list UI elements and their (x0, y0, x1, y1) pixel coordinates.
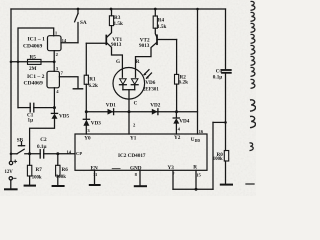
svg-text:R6: R6 (62, 167, 69, 173)
svg-text:14: 14 (62, 38, 67, 43)
svg-text:G: G (116, 59, 120, 65)
svg-text:CD4069: CD4069 (23, 43, 42, 49)
svg-text:R7: R7 (36, 167, 43, 173)
svg-text:6.2k: 6.2k (179, 79, 188, 85)
svg-text:Y0: Y0 (84, 135, 91, 141)
svg-text:11: 11 (93, 172, 98, 177)
svg-text:C: C (134, 100, 138, 106)
svg-text:SA: SA (80, 20, 87, 26)
svg-text:Y3: Y3 (168, 165, 175, 171)
svg-text:300k: 300k (56, 175, 66, 180)
svg-text:C0: C0 (216, 68, 223, 74)
svg-text:1µ: 1µ (28, 118, 34, 124)
svg-text:16: 16 (199, 129, 204, 134)
svg-text:EN: EN (91, 166, 98, 172)
svg-text:VD6: VD6 (145, 80, 155, 86)
svg-text:VD4: VD4 (179, 118, 189, 124)
svg-text:R: R (136, 59, 140, 65)
svg-text:VD3: VD3 (91, 120, 101, 126)
svg-text:1.5k: 1.5k (157, 24, 166, 30)
svg-text:VD5: VD5 (59, 114, 69, 120)
svg-text:1.5k: 1.5k (114, 21, 123, 27)
svg-text:R1: R1 (89, 77, 96, 83)
svg-text:R5: R5 (30, 55, 37, 61)
svg-text:100k: 100k (32, 175, 42, 180)
svg-text:IC2 CD4017: IC2 CD4017 (118, 153, 146, 159)
svg-text:2M: 2M (29, 66, 37, 72)
svg-text:R4: R4 (158, 18, 165, 24)
svg-text:100k: 100k (213, 157, 223, 162)
svg-text:GND: GND (130, 165, 142, 171)
svg-text:CP: CP (76, 151, 82, 156)
svg-text:Y2: Y2 (174, 135, 181, 141)
svg-text:R: R (193, 165, 197, 171)
svg-text:DD: DD (195, 139, 201, 143)
svg-text:6.2k: 6.2k (89, 83, 98, 89)
svg-text:0.1µ: 0.1µ (37, 144, 46, 150)
svg-text:9013: 9013 (139, 43, 150, 49)
svg-text:CD4069: CD4069 (24, 81, 43, 87)
svg-text:IC1 – 1: IC1 – 1 (28, 36, 46, 42)
svg-text:IC1 – 2: IC1 – 2 (27, 74, 45, 80)
svg-text:9013: 9013 (111, 42, 122, 48)
svg-text:Y1: Y1 (130, 135, 137, 141)
svg-text:VD1: VD1 (106, 103, 116, 109)
svg-text:12V: 12V (5, 170, 14, 175)
svg-text:15: 15 (196, 173, 201, 178)
svg-text:2EF301: 2EF301 (143, 88, 159, 93)
svg-text:0.1µ: 0.1µ (213, 75, 222, 81)
svg-text:VD2: VD2 (150, 103, 160, 109)
svg-text:C2: C2 (40, 137, 47, 143)
svg-text:SB: SB (17, 138, 24, 144)
svg-text:14: 14 (67, 149, 72, 154)
